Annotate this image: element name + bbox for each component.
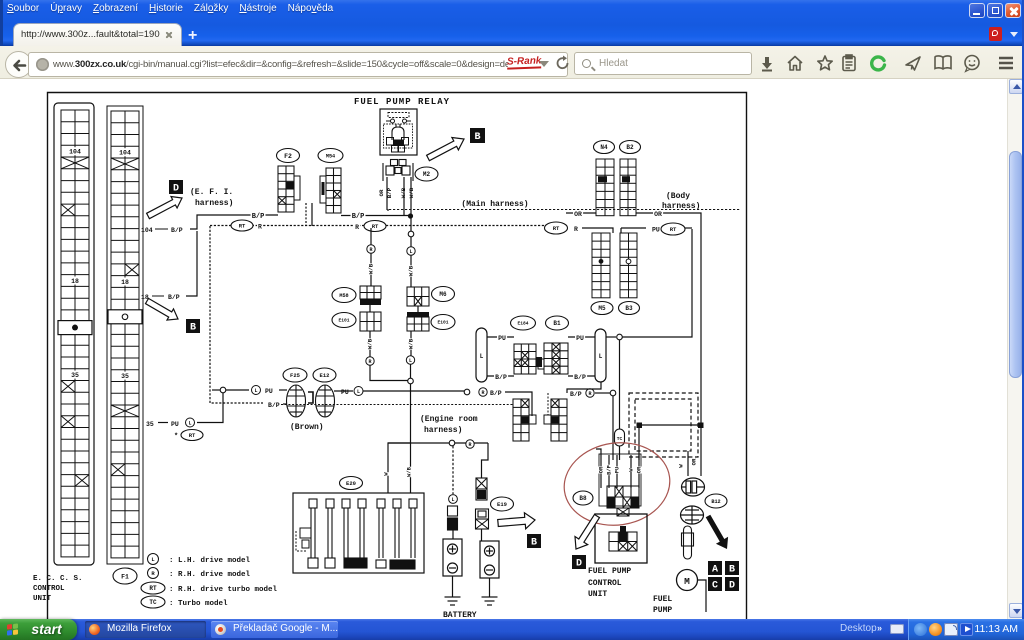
connector M6 label [432, 287, 455, 302]
wire M58-E101 [369, 305, 371, 312]
svg-text:B: B [474, 132, 480, 143]
wire label B/P (B1) [573, 374, 587, 382]
svg-text:W/B: W/B [408, 265, 415, 276]
svg-text:PU: PU [614, 467, 620, 473]
wire W/B(R) to M58 [370, 228, 372, 286]
scrollbar [1007, 79, 1022, 619]
wire W/B(R) joins [370, 365, 408, 381]
arrow to B (mid-left) [146, 298, 179, 320]
connector pill L right [595, 329, 606, 382]
wire W/B below E101 right [410, 331, 412, 356]
svg-text:OR: OR [598, 466, 604, 473]
svg-text:L: L [409, 358, 412, 364]
svg-text:L: L [480, 353, 484, 360]
battery 2 [480, 541, 499, 578]
connector M5 label [591, 302, 613, 315]
svg-text:R: R [468, 442, 471, 448]
connector M54 label [318, 149, 343, 163]
svg-text:UNIT: UNIT [33, 595, 52, 603]
svg-text:E19: E19 [497, 501, 507, 508]
fusible link holder box [293, 493, 424, 573]
wire dotted to right grid [547, 393, 549, 415]
svg-text:W/B: W/B [368, 263, 375, 274]
wire label B/P (relay) [386, 187, 393, 198]
svg-text:R: R [368, 359, 371, 365]
svg-text:M54: M54 [326, 153, 335, 159]
svg-text:18: 18 [71, 278, 79, 285]
connector code box B (battery area) [527, 534, 541, 549]
wire B8 pin W [630, 455, 632, 488]
FPCU caption [588, 567, 631, 599]
wire label W (holder) [383, 472, 389, 476]
wire to battery 2 terminal [481, 529, 483, 541]
svg-text:B/P: B/P [268, 402, 280, 409]
pump connector upper [682, 478, 705, 496]
wire RT to corner [685, 227, 692, 229]
wire W drop to holder [388, 443, 411, 493]
svg-text:PU: PU [341, 389, 349, 396]
svg-text:PU: PU [171, 421, 179, 428]
svg-text:B: B [531, 538, 537, 549]
wire B8 pin B/P [608, 455, 610, 488]
svg-text:CONTROL: CONTROL [33, 585, 65, 593]
connector E20 label [340, 477, 363, 490]
connector code box D (E.F.I.) [169, 180, 183, 195]
connector B8 label [573, 491, 593, 505]
svg-text:B12: B12 [711, 499, 720, 505]
marker R on W/B [367, 245, 375, 253]
wire to battery 1 [452, 446, 454, 494]
connector code box B (mid-left) [186, 319, 200, 334]
wire label B/P to F2 [251, 212, 266, 221]
svg-text:R: R [355, 224, 359, 231]
F25/E12 coupling tab [308, 392, 313, 403]
wire W/B to M6 [410, 237, 412, 287]
ground 2 [482, 597, 498, 605]
wire PU to F25 [279, 389, 287, 391]
wire label R 1 [257, 223, 263, 231]
shield dashed box inner [635, 399, 691, 451]
fusible link battery 1 [448, 506, 458, 530]
connector F1 label [113, 568, 137, 584]
connector E19 label [491, 497, 514, 511]
caption (E.F.I. harness) [190, 188, 233, 208]
connector N4 label [594, 141, 615, 154]
wire OR left [566, 212, 596, 214]
wire PU to RT right [621, 227, 646, 229]
wire label B/P (104) [171, 227, 183, 234]
svg-text:N4: N4 [600, 144, 608, 151]
svg-text:CONTROL: CONTROL [588, 579, 622, 588]
wire label PU (RT) [651, 226, 661, 234]
svg-text:L: L [599, 353, 603, 360]
svg-text:35: 35 [146, 421, 154, 428]
junction dot main harness [408, 213, 413, 218]
svg-text:R: R [258, 224, 262, 231]
svg-text:B/P: B/P [574, 374, 586, 381]
wire inside shield [639, 424, 701, 426]
connector B8 [607, 486, 639, 508]
svg-text:: R.H. drive model: : R.H. drive model [169, 571, 251, 579]
pump tube [682, 526, 694, 559]
fusible link 2 [326, 499, 334, 558]
wire 35 stub [158, 422, 168, 424]
svg-text:OR: OR [378, 189, 385, 196]
wire E12 PU to junction [363, 390, 464, 392]
svg-text:B8: B8 [579, 495, 587, 502]
caption engine room harness [420, 415, 478, 435]
wire label R 3 [573, 226, 579, 234]
relay connector M2 [383, 160, 413, 182]
fuel pump motor M [677, 570, 698, 591]
svg-text:R: R [588, 391, 591, 397]
wire B/P from pin 104 to F2 [190, 215, 278, 229]
wire to battery 1 terminal [452, 530, 454, 539]
wire label B/P (18) [168, 294, 180, 301]
wire B/P down to B8 [612, 396, 614, 460]
wire B/P E184 [487, 375, 514, 377]
connector E101 left [360, 312, 381, 331]
marker L on PU [252, 386, 261, 395]
svg-text:L: L [409, 249, 412, 255]
svg-text:RT: RT [553, 225, 560, 232]
svg-text:B/P: B/P [352, 213, 365, 221]
ECCS connector strip 2 [111, 111, 139, 558]
svg-text:L: L [357, 389, 360, 395]
svg-text:W: W [678, 464, 685, 468]
wire relay W/B down 1 [403, 177, 405, 216]
wire 35 PU drop [197, 393, 223, 423]
svg-text:M: M [684, 576, 690, 587]
legend symbol RT [141, 582, 165, 594]
wire label OR (relay) [378, 189, 385, 197]
connector pill L left [476, 328, 487, 382]
svg-text:PU: PU [265, 388, 273, 395]
svg-text:PU: PU [576, 335, 584, 342]
shield dashed box outer [629, 393, 698, 457]
connector B2 strip [620, 159, 636, 216]
connector E12 (round) [316, 385, 335, 417]
svg-text:RT: RT [149, 585, 157, 592]
browser top bar with menu and tab [0, 0, 1024, 46]
wire B/P to lower grid [505, 392, 532, 416]
pin label 104 [141, 227, 153, 234]
fusible link 7 [409, 499, 417, 558]
wire F2 drop [305, 203, 307, 226]
svg-text:D: D [576, 559, 582, 570]
wire W down to pump connector [687, 451, 689, 476]
connector B12 label [705, 494, 727, 508]
svg-text:B/P: B/P [490, 390, 502, 397]
svg-text:B/P: B/P [495, 374, 507, 381]
fusible link 6 [393, 499, 401, 558]
fusible link feet [308, 558, 415, 569]
ECCS connector strip 1 [61, 110, 89, 557]
E.C.C.S. control unit connector outline [54, 103, 94, 565]
svg-text:W/B: W/B [406, 466, 412, 476]
svg-text:18: 18 [121, 279, 129, 286]
title FUEL PUMP RELAY [352, 94, 452, 107]
connector E101 label (right) [431, 315, 455, 330]
wire OR right down [636, 213, 701, 425]
wire label W/B 1 [368, 263, 375, 274]
wire label B/P (E184) [494, 374, 508, 382]
ground 1 [445, 597, 461, 605]
wire label W/B (relay 2) [408, 187, 415, 198]
wire B/P dotted lower [281, 404, 513, 406]
connector E184 label [511, 316, 536, 330]
wire label B/P engine room [489, 390, 503, 398]
wire relay OR down [386, 177, 388, 210]
junction circle B/P [610, 390, 616, 396]
wire W/B drop to holder [410, 443, 412, 493]
svg-text:104: 104 [119, 150, 131, 157]
connector E101 right [407, 317, 429, 331]
svg-text:RT: RT [189, 432, 196, 439]
connector B8 housing outline [599, 454, 641, 506]
connector F2 side tab [294, 176, 300, 200]
connector B1 label [546, 316, 569, 330]
svg-text:B1: B1 [553, 320, 561, 327]
connector B3 label [619, 302, 640, 315]
wire main harness [389, 209, 740, 211]
svg-text:B: B [729, 565, 735, 576]
wire label OR (pump) [691, 458, 698, 466]
connector E101 label (left) [332, 313, 356, 328]
svg-text:B/P: B/P [171, 227, 183, 234]
wire OR down to B8 [638, 428, 640, 460]
svg-text:FUEL: FUEL [653, 595, 672, 604]
svg-text:A: A [712, 565, 718, 576]
svg-text:OR: OR [574, 211, 582, 218]
svg-text:B/P: B/P [252, 213, 265, 221]
fusible link 4 [358, 499, 366, 558]
svg-text:B/P: B/P [606, 465, 612, 475]
svg-text:(Body: (Body [666, 192, 690, 201]
connector M6 [407, 287, 429, 306]
svg-text:harness): harness) [195, 199, 233, 208]
connector B2 label [620, 141, 641, 154]
svg-text:W/B: W/B [408, 338, 415, 349]
relay armature [392, 124, 404, 140]
connector F25 (round) [287, 385, 306, 417]
svg-text:*: * [174, 433, 178, 441]
pin label W (B8) [628, 468, 634, 472]
wire B8 pin OR [638, 455, 640, 488]
connector M54 side tab [320, 176, 326, 203]
svg-text:TC: TC [617, 436, 623, 442]
wire B8 pin PU [616, 455, 618, 488]
fusible link 1 [309, 499, 317, 558]
wire label W/B (relay 1) [400, 187, 407, 198]
junction circle holder row [449, 440, 455, 446]
connector B1 [544, 343, 568, 374]
svg-text:RT: RT [239, 223, 246, 230]
marker L lower [406, 356, 414, 364]
svg-text:PU: PU [498, 335, 506, 342]
marker RT 1 [231, 220, 253, 231]
fusible link 5 [377, 499, 385, 558]
svg-text:OR: OR [636, 466, 642, 473]
svg-text:35: 35 [121, 373, 129, 380]
svg-text:harness): harness) [424, 426, 462, 435]
svg-text:C: C [712, 581, 718, 592]
junction square 2 [698, 423, 704, 429]
wire W/B below E101 left [369, 331, 371, 357]
svg-text:B2: B2 [626, 144, 634, 151]
svg-text:F25: F25 [290, 372, 301, 379]
wire label PU (E12) [341, 389, 349, 396]
marker R holder row [466, 440, 474, 448]
marker L battery [449, 495, 458, 504]
E184 tab [536, 357, 542, 367]
svg-text:104: 104 [69, 149, 81, 156]
relay coil bar [388, 113, 409, 118]
wire label OR 1 [573, 211, 583, 219]
wire B/P to F25 [283, 403, 287, 405]
wire holder feed row [388, 442, 488, 444]
battery 1 [443, 539, 462, 576]
connector code box A [708, 561, 722, 576]
asterisk [174, 433, 178, 441]
svg-text:E184: E184 [517, 321, 528, 327]
connector B3 strip [620, 233, 637, 298]
wire R (RT models) [210, 225, 365, 227]
wire E12 PU stub [334, 390, 353, 392]
connector code box D (bottom right) [725, 577, 739, 592]
caption (Main harness) [459, 199, 530, 209]
connector E184 [514, 344, 536, 374]
wire label W/B 4 [408, 338, 415, 349]
fuel pump control unit box [595, 514, 647, 563]
svg-text:FUEL PUMP RELAY: FUEL PUMP RELAY [354, 97, 450, 107]
wire M54 drop [311, 203, 313, 226]
wire label B/P (M54) [351, 212, 366, 221]
svg-text:F1: F1 [121, 573, 129, 580]
wire B3 stub up [620, 228, 622, 233]
fuse block battery 2 [476, 478, 487, 500]
svg-text:B: B [190, 323, 196, 334]
wire B1 down [567, 382, 601, 393]
svg-text:R: R [481, 390, 484, 396]
marker TC pill [615, 429, 625, 446]
marker R lower [366, 357, 374, 365]
connector M58 label [332, 288, 356, 303]
connector B8 key tab [617, 508, 629, 516]
wire PU down to TC [619, 340, 621, 429]
svg-text:W/B: W/B [367, 338, 374, 349]
pin label PU (B8) [614, 467, 620, 474]
wire label PU (B1) [575, 335, 585, 343]
pin label OR (B8) 2 [636, 466, 642, 473]
svg-text:35: 35 [71, 372, 79, 379]
marker RT 3 [545, 222, 568, 234]
wire label W/B (holder) [406, 466, 412, 477]
junction circle PU [220, 387, 226, 393]
svg-text:harness): harness) [662, 202, 700, 211]
svg-text:: R.H. drive turbo model: : R.H. drive turbo model [169, 586, 278, 594]
svg-text:B3: B3 [625, 305, 633, 312]
node junction circle [408, 231, 414, 237]
marker L on W/B [407, 247, 415, 255]
svg-text:(Brown): (Brown) [290, 423, 324, 432]
wire label R 2 [354, 224, 360, 232]
wire B/P B1 [568, 375, 595, 377]
svg-text:PU: PU [652, 227, 660, 234]
svg-text:M2: M2 [423, 171, 431, 178]
navigation toolbar [0, 46, 1024, 79]
wire to junction [410, 364, 412, 378]
junction circle lower PU [464, 389, 470, 395]
wire label PU (E184) [497, 335, 507, 343]
pump connector lower [681, 506, 704, 524]
legend symbol R [148, 568, 159, 579]
wire B8 OR stub [596, 449, 601, 455]
svg-text:OR: OR [654, 211, 662, 218]
marker L on 35 [186, 418, 195, 427]
schematic frame border [48, 93, 747, 631]
svg-text:E101: E101 [338, 318, 349, 324]
FPCU connector stub [620, 526, 626, 533]
wire R continues [386, 225, 545, 227]
svg-text:D: D [729, 581, 735, 592]
taskbar [0, 619, 1024, 640]
junction circle PU right [617, 334, 623, 340]
svg-text:M6: M6 [439, 291, 447, 298]
pin label OR (B8) [598, 466, 604, 473]
marker L on E12 PU [354, 387, 363, 396]
wire PU up to RT [623, 229, 693, 337]
wire battery 2 to ground [489, 578, 491, 597]
svg-text:UNIT: UNIT [588, 590, 607, 599]
junction square 1 [637, 423, 643, 429]
caption (Brown) [290, 423, 324, 432]
wire label W (pump) [678, 464, 685, 468]
E.C.C.S. CONTROL UNIT caption [33, 575, 83, 603]
connector code box D (FPCU) [572, 555, 586, 570]
svg-text:: L.H. drive model: : L.H. drive model [169, 557, 251, 565]
connector E12 label [313, 368, 336, 382]
connector F25 label [283, 368, 307, 382]
wire B8 pin OR [600, 455, 602, 488]
svg-text:L: L [451, 497, 454, 503]
svg-text:RT: RT [670, 226, 677, 233]
B1 tab [538, 359, 544, 369]
wire PU E184 [487, 336, 514, 338]
wire M6-E101 [417, 306, 419, 312]
arrow to B (top) [427, 138, 464, 161]
fuel pump relay box [380, 109, 417, 155]
arrow to A B C D [706, 515, 728, 549]
svg-text:M5: M5 [598, 305, 606, 312]
connector M2 label [415, 167, 438, 181]
svg-text:(Engine room: (Engine room [420, 415, 478, 424]
svg-text:L: L [254, 388, 257, 394]
caption body harness [662, 192, 700, 211]
wire label W/B 2 [408, 265, 415, 276]
svg-text:E101: E101 [437, 320, 448, 326]
arrow to D (FPCU) [575, 514, 600, 549]
svg-text:: Turbo model: : Turbo model [169, 600, 228, 608]
engine-room connector right [551, 399, 567, 441]
wire label B/P (F25) [267, 402, 281, 410]
marker RT 2 [364, 221, 386, 232]
svg-text:L: L [188, 420, 191, 426]
svg-text:M58: M58 [339, 293, 348, 299]
wire relay W/B down 2 [410, 177, 412, 231]
wire to battery 2 [482, 443, 489, 478]
marker RT 5 [661, 223, 685, 235]
